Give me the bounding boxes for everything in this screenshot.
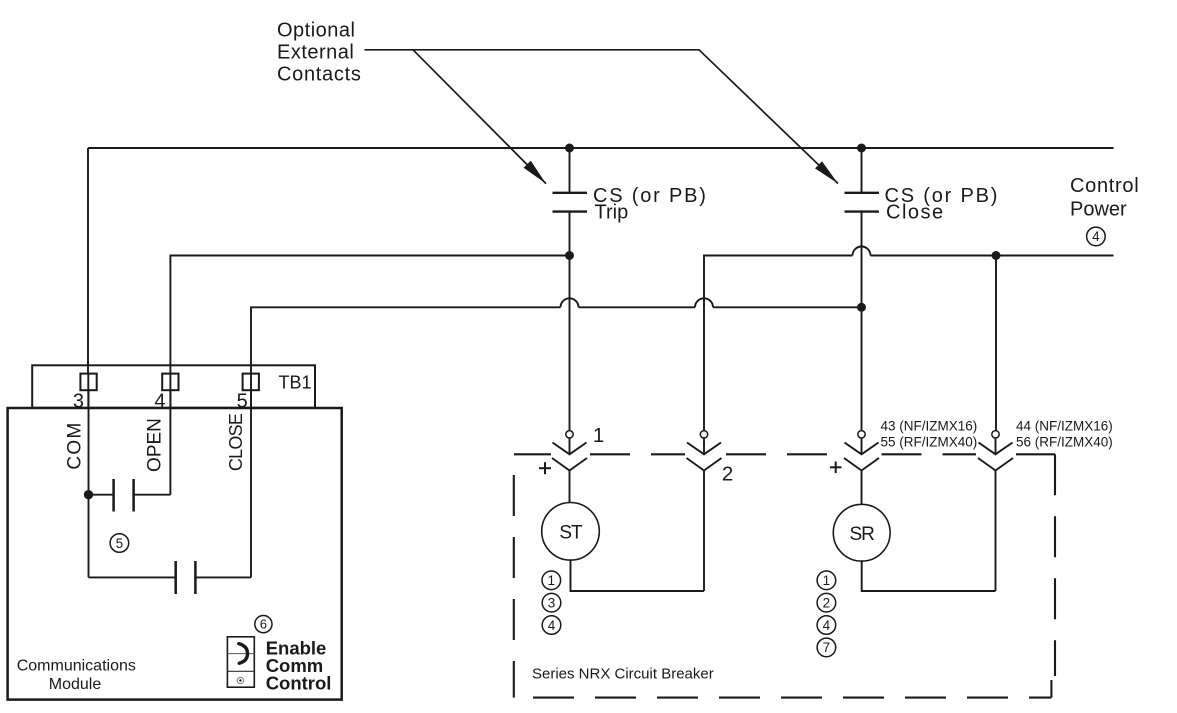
wire: COM vertical xyxy=(88,390,90,577)
note circles 1,3,4 (ST) xyxy=(542,571,561,634)
svg-text:SR: SR xyxy=(849,524,874,545)
note circle 5 xyxy=(110,534,129,553)
svg-text:7: 7 xyxy=(823,640,831,655)
node at top bus / close branch xyxy=(857,144,866,153)
svg-text:Control: Control xyxy=(1070,175,1139,197)
hop over close branch xyxy=(853,247,871,256)
wire: OPEN vertical xyxy=(169,390,171,495)
note circle 4 control power xyxy=(1087,227,1106,246)
pin labels 44/56 xyxy=(1016,418,1113,449)
arrowhead at CS Close xyxy=(815,161,838,183)
svg-text:COM: COM xyxy=(65,421,86,469)
svg-text:OPEN: OPEN xyxy=(145,418,166,472)
breaker dashed box right edge xyxy=(1054,454,1056,676)
hop over return branch xyxy=(695,298,713,307)
arrowhead at CS Trip xyxy=(524,161,546,184)
wire from contact to CLOSE xyxy=(195,576,251,578)
wire: trip branch vertical down to connector 1 xyxy=(569,212,571,431)
node COM / status contact xyxy=(84,490,93,499)
breaker dashed box corner tick xyxy=(1050,680,1052,698)
svg-text:1: 1 xyxy=(548,573,556,588)
wire: second bus left segment (OPEN to trip branch) xyxy=(170,256,569,375)
wire xyxy=(713,306,862,308)
node second bus / trip branch xyxy=(565,251,574,260)
svg-text:Close: Close xyxy=(886,202,945,224)
svg-text:Control: Control xyxy=(266,672,332,693)
label Control Power xyxy=(1070,175,1139,221)
node at top bus / trip branch xyxy=(565,144,574,153)
svg-text:5: 5 xyxy=(116,536,124,551)
wire: CLOSE vertical xyxy=(250,390,252,577)
coil ST (shunt trip) xyxy=(542,503,600,561)
wire: third bus (CLOSE) with hops over trip and return branches xyxy=(251,307,561,374)
polarity + (close) xyxy=(830,462,842,474)
wire from contact to OPEN xyxy=(134,494,171,496)
contact CS (or PB) Trip xyxy=(553,192,588,194)
svg-text:Optional: Optional xyxy=(277,20,356,42)
polarity + (trip) xyxy=(539,462,551,474)
wire: control power return segment with hop over close branch xyxy=(704,256,853,431)
wire: ST bottom loop xyxy=(571,560,705,591)
contact status (5) left plate xyxy=(112,479,115,512)
hop over trip branch xyxy=(561,298,579,307)
wire: lower contact run from COM xyxy=(89,576,176,578)
communications module box xyxy=(8,408,342,700)
svg-text:Series NRX Circuit Breaker: Series NRX Circuit Breaker xyxy=(532,666,714,683)
coil SR (spring release) xyxy=(833,504,890,561)
svg-text:2: 2 xyxy=(722,462,733,485)
svg-text:4: 4 xyxy=(548,618,556,633)
svg-text:55 (RF/IZMX40): 55 (RF/IZMX40) xyxy=(881,434,978,449)
pin labels 43/55 xyxy=(881,418,978,449)
terminal 4 xyxy=(162,374,178,391)
connector 2 xyxy=(687,431,722,591)
svg-text:ST: ST xyxy=(559,523,583,544)
note circles 1,2,4,7 (SR) xyxy=(817,571,836,657)
wire: SR bottom loop xyxy=(862,561,996,591)
svg-text:4: 4 xyxy=(1092,229,1100,244)
connector 1 (trip) xyxy=(552,431,587,503)
wire: close branch upper stub xyxy=(861,148,863,193)
label Optional External Contacts xyxy=(277,20,362,86)
svg-text:1: 1 xyxy=(593,424,604,447)
svg-text:Power: Power xyxy=(1070,199,1127,221)
breaker dashed box bottom edge xyxy=(533,697,1051,699)
svg-text:Contacts: Contacts xyxy=(277,64,362,86)
wire: left vertical drop to TB1 terminal 3 xyxy=(87,148,89,374)
contact comm-close left plate xyxy=(174,561,177,594)
connector 43/55 (close) xyxy=(844,431,879,505)
contact CS (or PB) Close xyxy=(845,192,880,194)
svg-text:44 (NF/IZMX16): 44 (NF/IZMX16) xyxy=(1016,418,1113,433)
svg-text:56 (RF/IZMX40): 56 (RF/IZMX40) xyxy=(1016,434,1113,449)
terminal 5 xyxy=(243,374,259,391)
wire: connector-44 branch vertical xyxy=(995,256,997,431)
svg-text:CLOSE: CLOSE xyxy=(226,413,246,471)
leader line to external contacts xyxy=(365,50,839,184)
svg-text:External: External xyxy=(277,42,354,64)
contact status (5) right plate xyxy=(132,479,135,512)
enable comm control switch xyxy=(227,637,254,687)
wire to status contact xyxy=(89,494,114,496)
svg-text:3: 3 xyxy=(548,596,556,611)
svg-text:Trip: Trip xyxy=(595,202,629,224)
svg-text:43 (NF/IZMX16): 43 (NF/IZMX16) xyxy=(881,418,978,433)
wire: top horizontal bus xyxy=(88,147,1114,149)
node return bus / connector-44 branch xyxy=(992,251,1001,260)
terminal 3 xyxy=(80,374,96,391)
connector 44/56 xyxy=(978,431,1013,591)
note circle 6 xyxy=(255,616,272,633)
svg-text:1: 1 xyxy=(823,573,831,588)
svg-text:6: 6 xyxy=(260,617,267,632)
breaker dashed box top edge xyxy=(514,453,1055,455)
wire: trip branch upper stub xyxy=(569,148,571,193)
wire xyxy=(579,306,696,308)
svg-text:TB1: TB1 xyxy=(279,373,312,393)
node third bus / close branch xyxy=(857,303,866,312)
leader branch to trip contact xyxy=(413,50,546,184)
svg-text:Module: Module xyxy=(49,676,102,693)
svg-text:4: 4 xyxy=(823,618,831,633)
contact comm-close right plate xyxy=(194,561,197,594)
wire: close branch vertical down to connector 43/55 xyxy=(861,212,863,431)
wire xyxy=(871,255,1114,257)
svg-text:Communications: Communications xyxy=(17,658,136,675)
terminal block TB1 xyxy=(32,365,315,408)
svg-text:2: 2 xyxy=(823,596,831,611)
breaker dashed box left edge xyxy=(513,475,515,698)
